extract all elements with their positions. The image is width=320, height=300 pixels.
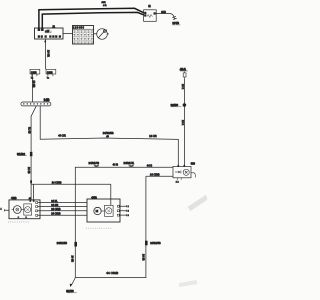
scan artifact streak bottom right <box>179 282 197 285</box>
wire 40A down to switch 3/8 <box>181 79 184 167</box>
connector 13/8 left half <box>30 69 40 79</box>
junction 22/30 <box>171 103 187 107</box>
dashed boundary under right lamp <box>86 227 112 229</box>
wire relay output to 2/4B <box>156 11 175 19</box>
svg-text:14 OR/B: 14 OR/B <box>52 182 62 185</box>
svg-text:24 BL: 24 BL <box>51 200 58 203</box>
wire feed to both headlamps <box>31 182 111 206</box>
junction 24/31/8B <box>57 241 77 263</box>
wire lamp L pin1 <box>38 200 87 203</box>
headlamp unit 43B right <box>87 195 120 222</box>
svg-text:13/8: 13/8 <box>31 70 37 74</box>
svg-text:4 R: 4 R <box>103 5 107 7</box>
wire parking feed horizontal (mid) <box>75 167 173 277</box>
svg-text:1 2 3 4 5 6: 1 2 3 4 5 6 <box>73 27 85 29</box>
svg-text:24 SB: 24 SB <box>70 256 73 263</box>
svg-text:44 B: 44 B <box>147 163 153 167</box>
terminal strip 14B <box>21 98 51 106</box>
svg-text:44 OR/B: 44 OR/B <box>106 271 118 275</box>
svg-text:24/32/8B: 24/32/8B <box>103 131 114 135</box>
wire strip to junction 31/B2 (left main vertical) <box>27 106 36 152</box>
svg-text:14 OR/B: 14 OR/B <box>150 174 160 177</box>
wire switch return (right vertical) <box>75 174 173 278</box>
inline connector C2 <box>124 161 135 167</box>
connector J1 (ignition feed box) <box>35 25 64 39</box>
junction 24/31/6B <box>145 241 161 246</box>
svg-text:31B: 31B <box>161 11 166 14</box>
svg-text:43B: 43B <box>91 195 97 199</box>
svg-text:22/30: 22/30 <box>171 103 179 107</box>
svg-text:24 GR: 24 GR <box>51 204 58 207</box>
wire 13/8 down to strip 14B <box>32 74 35 102</box>
inline connector C1 <box>89 161 100 167</box>
svg-text:16 GR: 16 GR <box>47 50 50 57</box>
svg-text:4 5: 4 5 <box>29 198 32 200</box>
dashed boundary under left lamp <box>8 221 30 223</box>
svg-text:14 OR: 14 OR <box>149 134 157 138</box>
svg-text:24/31/6B: 24/31/6B <box>150 241 161 245</box>
connector 13/8 right half <box>46 69 56 79</box>
svg-text:24 SB: 24 SB <box>27 167 30 174</box>
ground 31/50 <box>66 278 77 293</box>
wire supply B (thick inner feed) <box>42 12 143 28</box>
svg-text:3/8: 3/8 <box>191 162 196 166</box>
lamp L bottom pins <box>18 216 20 218</box>
wire junction down to lamp L (ground lead) <box>27 156 32 200</box>
svg-text:31/50: 31/50 <box>66 289 74 293</box>
svg-text:16 R: 16 R <box>181 84 184 89</box>
connector 2/4B <box>172 16 180 25</box>
svg-text:16 R: 16 R <box>181 120 184 125</box>
svg-text:31 SB: 31 SB <box>27 127 30 134</box>
fuse box 11 <box>73 26 94 45</box>
svg-text:44 B: 44 B <box>113 163 119 167</box>
svg-text:24/31/41: 24/31/41 <box>124 161 135 165</box>
svg-text:43B: 43B <box>11 196 17 200</box>
svg-text:16 GR: 16 GR <box>32 81 35 88</box>
wire supply A (thick outer feed) <box>39 8 144 28</box>
svg-text:24 SB: 24 SB <box>142 254 145 261</box>
wire fuse box to ignition switch <box>94 33 97 35</box>
svg-text:31/B2: 31/B2 <box>17 152 25 156</box>
wire J1 pin down to connector 13/8 <box>46 39 50 69</box>
wire lamp L pin4 <box>38 213 87 216</box>
wire strip to headlamp feed (long horizontal) <box>40 106 178 166</box>
fuse 40A <box>180 67 188 78</box>
svg-text:13/8: 13/8 <box>47 70 53 74</box>
junction 31/B2 <box>17 152 32 157</box>
ignition switch S1 <box>97 29 109 40</box>
wire stubs right of lamp R <box>119 205 129 217</box>
connector J1 bottom pins <box>38 36 61 43</box>
wire J1 to fuse box <box>63 33 73 35</box>
wire stub left of lamp <box>0 208 9 211</box>
wire lamp L pin3 <box>38 208 87 211</box>
svg-text:2/4B: 2/4B <box>172 21 179 25</box>
svg-text:24/31/8B: 24/31/8B <box>57 241 68 245</box>
relay U1 (top right box) <box>102 2 157 22</box>
switch 3/8 <box>173 162 195 184</box>
svg-text:24/31/43: 24/31/43 <box>89 161 100 165</box>
headlamp unit 43B left <box>9 196 40 219</box>
svg-text:24 OR/B: 24 OR/B <box>51 208 61 211</box>
scan artifact streak right edge <box>189 197 207 209</box>
svg-text:44 OR: 44 OR <box>58 134 66 138</box>
svg-text:24 OR/B: 24 OR/B <box>51 213 61 216</box>
wire lamp L pin2 <box>38 204 87 207</box>
svg-text:14B: 14B <box>44 98 51 102</box>
